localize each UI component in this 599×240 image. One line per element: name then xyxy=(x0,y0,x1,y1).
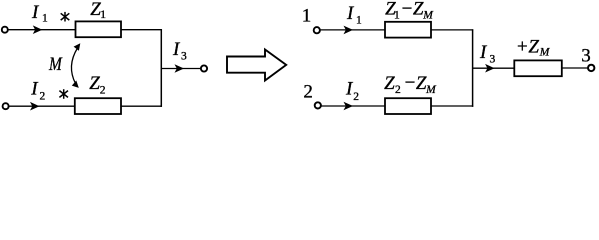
svg-text:I: I xyxy=(346,3,355,24)
svg-text:I: I xyxy=(479,42,488,63)
wire from Z1 to right vertical bus xyxy=(121,29,162,31)
wire from terminal 2 to Z2-ZM xyxy=(321,105,385,107)
svg-text:2: 2 xyxy=(303,82,313,103)
current arrow I2 right xyxy=(344,102,354,111)
svg-text:I: I xyxy=(31,2,40,23)
svg-text:+: + xyxy=(517,36,528,57)
svg-text:−: − xyxy=(405,73,416,94)
dot marker (asterisk) of Z2 xyxy=(59,89,68,99)
wire from +ZM to terminal 3 xyxy=(562,67,588,69)
terminal node bottom-left of coupled circuit xyxy=(3,103,9,109)
svg-text:3: 3 xyxy=(181,51,187,63)
svg-text:I: I xyxy=(172,39,181,60)
dot marker (asterisk) of Z1 xyxy=(61,12,70,22)
svg-text:2: 2 xyxy=(353,91,359,103)
svg-text:Z: Z xyxy=(89,73,100,94)
svg-text:M: M xyxy=(425,84,437,96)
wire I3 output left circuit xyxy=(161,68,201,70)
terminal node 2 xyxy=(315,102,321,108)
terminal node output left circuit xyxy=(201,65,207,71)
wire from Z2-ZM to right vertical bus xyxy=(431,105,473,107)
svg-text:Z: Z xyxy=(528,36,539,57)
current arrow I1 right xyxy=(344,26,354,35)
svg-text:1: 1 xyxy=(42,12,48,24)
current arrow I2 left xyxy=(30,102,40,111)
svg-text:1: 1 xyxy=(394,10,400,22)
svg-text:1: 1 xyxy=(100,9,106,21)
svg-text:−: − xyxy=(402,0,413,19)
terminal node top-left of coupled circuit xyxy=(2,27,8,33)
wire from terminal 1 to Z1-ZM xyxy=(320,29,385,31)
vertical bus wire left circuit xyxy=(160,29,162,107)
resistor Z2-ZM xyxy=(385,98,431,114)
terminal node 3 xyxy=(588,65,594,71)
terminal node 1 xyxy=(314,27,320,33)
mutual coupling arc M with arrowheads xyxy=(71,48,77,84)
wire bottom-left from terminal to Z2 xyxy=(9,105,76,107)
resistor Z2 xyxy=(75,98,121,114)
svg-text:1: 1 xyxy=(356,14,362,26)
svg-text:M: M xyxy=(48,54,63,75)
wire from Z2 to right vertical bus xyxy=(121,105,162,107)
svg-text:2: 2 xyxy=(395,84,401,96)
svg-text:3: 3 xyxy=(581,46,591,67)
svg-text:3: 3 xyxy=(490,54,496,66)
svg-text:2: 2 xyxy=(100,85,106,97)
wire from Z1-ZM to right vertical bus xyxy=(431,29,473,31)
svg-text:2: 2 xyxy=(40,91,46,103)
svg-text:M: M xyxy=(539,46,551,58)
svg-text:Z: Z xyxy=(384,73,395,94)
current arrow I3 right xyxy=(485,64,495,73)
equivalence block arrow xyxy=(227,50,286,81)
current arrow I1 left xyxy=(33,25,43,34)
resistor Z1-ZM xyxy=(385,22,431,38)
resistor Z1 xyxy=(76,21,122,37)
svg-text:I: I xyxy=(30,78,39,99)
vertical bus wire right circuit xyxy=(472,29,474,107)
svg-text:1: 1 xyxy=(302,6,312,27)
svg-text:M: M xyxy=(422,10,434,22)
current arrow I3 left xyxy=(175,64,185,73)
resistor +ZM xyxy=(514,60,562,76)
wire I3 output right circuit xyxy=(473,67,515,69)
wire top-left from terminal to Z1 xyxy=(8,29,76,31)
